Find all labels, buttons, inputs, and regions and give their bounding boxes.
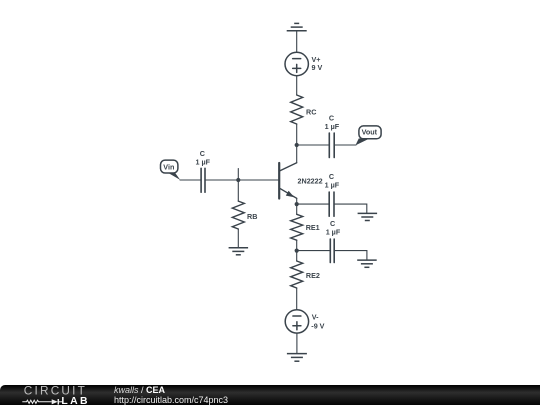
credits text [114, 385, 228, 405]
wire RE2 to V- [296, 288, 298, 310]
voltage source V+ 9 V [285, 52, 322, 75]
wire RB to ground [237, 229, 239, 248]
wire collector node to Q1 collector [296, 145, 298, 163]
wire top ground to V+ [296, 31, 298, 53]
wire stub above base node [237, 169, 239, 181]
node collector junction [295, 143, 299, 147]
wire V- to ground [296, 333, 298, 353]
svg-text:RE1: RE1 [306, 223, 320, 232]
svg-text:1 µF: 1 µF [325, 122, 340, 131]
svg-text:1 µF: 1 µF [196, 157, 211, 166]
capacitor C3 1uF (bypass upper) [325, 172, 340, 216]
node emitter junction [295, 202, 299, 206]
wire emitter node to C3 [297, 203, 330, 205]
CircuitLab logo [10, 385, 110, 406]
wire Vin to C2 [180, 179, 201, 181]
ground (bottom) [287, 354, 307, 362]
flag Vout [355, 126, 381, 145]
voltage source V- -9 V [285, 310, 324, 333]
ground (RB) [229, 248, 249, 255]
svg-text:RC: RC [306, 107, 316, 116]
wire Q1 emitter to emitter node [296, 198, 298, 204]
svg-text:1 µF: 1 µF [326, 228, 341, 237]
svg-text:9 V: 9 V [312, 63, 323, 72]
svg-text:RB: RB [247, 212, 257, 221]
resistor RC [291, 95, 317, 124]
resistor RE2 [291, 251, 320, 288]
ground (inverted, top rail) [287, 23, 307, 30]
wire C1 to Vout flag [334, 144, 356, 146]
wire base node to Q1 base [238, 179, 279, 181]
svg-text:-9 V: -9 V [311, 321, 324, 330]
flag Vin [161, 160, 181, 180]
wire collector node to C1 [297, 144, 330, 146]
wire RC to collector node [296, 124, 298, 145]
transistor Q1 2N2222 [279, 163, 322, 199]
wire C2 to base node [205, 179, 238, 181]
svg-text:2N2222: 2N2222 [298, 177, 323, 186]
resistor RB [232, 201, 257, 229]
ground (C3) [358, 213, 378, 220]
wire RE1 to node [296, 240, 298, 250]
ground (C4) [357, 260, 377, 267]
wire node to C4 [297, 250, 331, 252]
wire C3 to ground [334, 204, 367, 213]
svg-text:LAB: LAB [61, 396, 90, 406]
node RE1/RE2 junction [295, 249, 299, 253]
footer bar [0, 385, 540, 405]
svg-text:V-: V- [312, 313, 319, 322]
wire V+ to RC [296, 76, 298, 95]
capacitor C2 1uF (input coupling) [196, 149, 211, 192]
wire base node to RB [237, 180, 239, 201]
capacitor C4 1uF (bypass lower) [326, 219, 341, 263]
svg-text:Vin: Vin [163, 162, 174, 171]
svg-text:Vout: Vout [362, 128, 378, 137]
svg-text:RE2: RE2 [306, 271, 320, 280]
resistor RE1 [291, 204, 320, 240]
svg-text:1 µF: 1 µF [325, 181, 340, 190]
wire C4 to ground [334, 251, 367, 260]
node base junction [236, 178, 240, 182]
capacitor C1 1uF (output coupling) [325, 114, 340, 158]
